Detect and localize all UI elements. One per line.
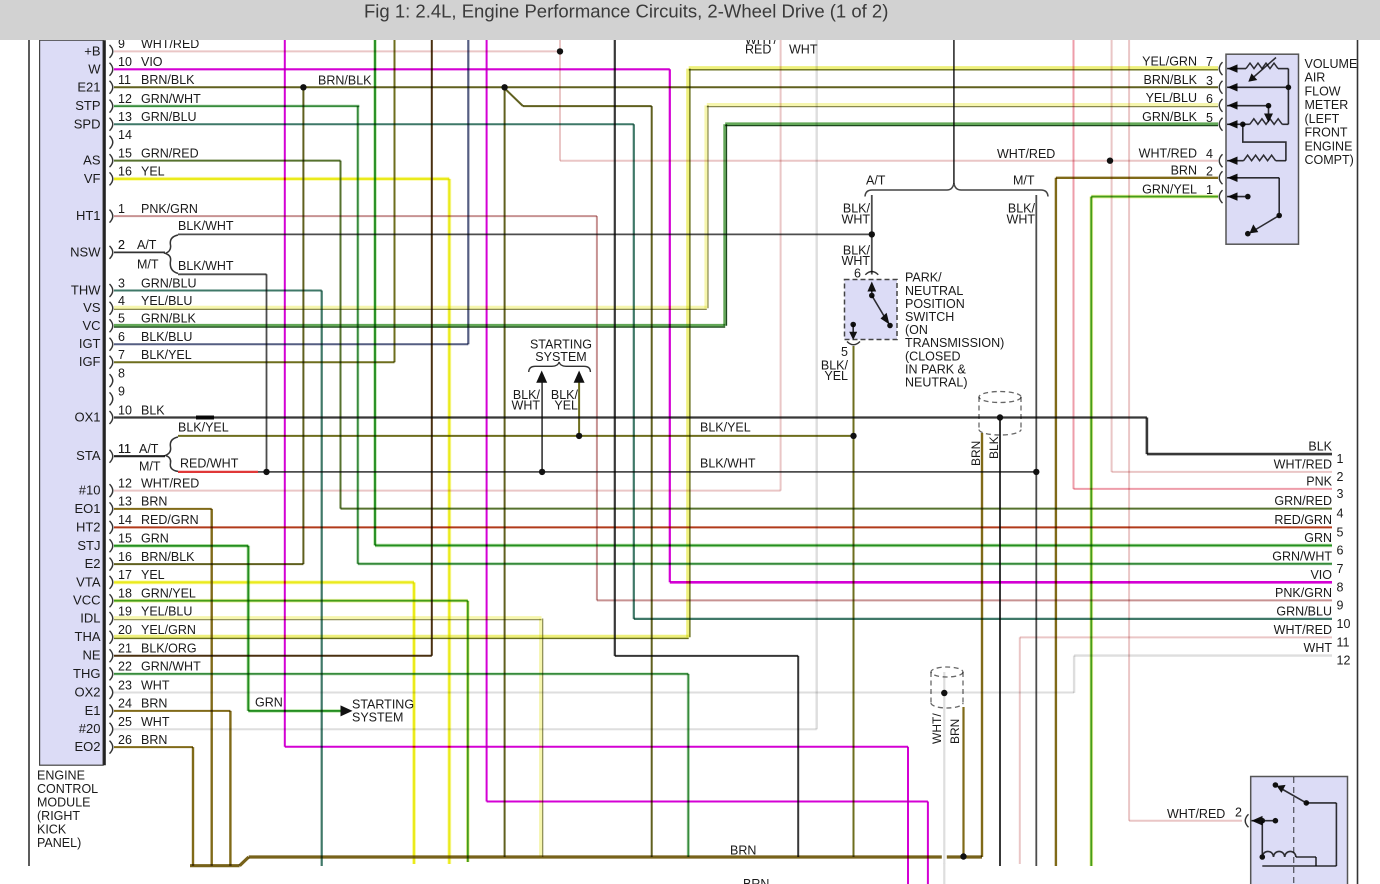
svg-text:BLK/BLU: BLK/BLU	[141, 330, 192, 344]
svg-text:18: 18	[118, 587, 132, 601]
svg-text:WHT: WHT	[141, 715, 170, 729]
svg-text:SYSTEM: SYSTEM	[535, 350, 586, 364]
svg-text:21: 21	[118, 642, 132, 656]
svg-text:BRN/BLK: BRN/BLK	[141, 73, 195, 87]
svg-text:1: 1	[118, 202, 125, 216]
svg-text:14: 14	[118, 128, 132, 142]
svg-text:BRN: BRN	[743, 877, 769, 884]
svg-text:VTA: VTA	[76, 574, 101, 589]
svg-text:RED/WHT: RED/WHT	[180, 457, 239, 471]
svg-text:8: 8	[118, 366, 125, 380]
svg-text:BRN: BRN	[948, 719, 962, 744]
svg-text:BRN: BRN	[141, 697, 167, 711]
svg-text:BLK/ORG: BLK/ORG	[141, 642, 197, 656]
svg-text:23: 23	[118, 678, 132, 692]
svg-text:BRN: BRN	[141, 733, 167, 747]
svg-text:10: 10	[118, 55, 132, 69]
svg-text:WHT/RED: WHT/RED	[1274, 623, 1332, 637]
svg-text:SPD: SPD	[74, 116, 101, 131]
svg-text:NEUTRAL): NEUTRAL)	[905, 376, 968, 390]
svg-text:(RIGHT: (RIGHT	[37, 809, 80, 823]
svg-text:BLK/WHT: BLK/WHT	[178, 259, 234, 273]
svg-text:3: 3	[118, 276, 125, 290]
svg-text:HT1: HT1	[76, 208, 101, 223]
svg-text:BLK: BLK	[987, 436, 1001, 459]
svg-text:GRN/BLU: GRN/BLU	[141, 110, 197, 124]
svg-text:16: 16	[118, 550, 132, 564]
svg-text:STJ: STJ	[77, 538, 100, 553]
svg-text:BLK/YEL: BLK/YEL	[178, 421, 229, 435]
svg-text:BLK/WHT: BLK/WHT	[178, 219, 234, 233]
svg-text:WHT/RED: WHT/RED	[1139, 147, 1197, 161]
svg-text:VCC: VCC	[73, 593, 100, 608]
svg-text:WHT: WHT	[512, 399, 541, 413]
svg-text:Fig 1: 2.4L, Engine Performanc: Fig 1: 2.4L, Engine Performance Circuits…	[364, 1, 888, 22]
svg-text:IGT: IGT	[79, 336, 101, 351]
svg-text:E1: E1	[85, 703, 101, 718]
svg-text:6: 6	[854, 267, 861, 281]
svg-text:GRN/WHT: GRN/WHT	[141, 660, 201, 674]
svg-text:VS: VS	[83, 300, 101, 315]
svg-text:11: 11	[118, 442, 131, 456]
svg-text:GRN/YEL: GRN/YEL	[141, 587, 196, 601]
svg-text:ENGINE: ENGINE	[1305, 139, 1353, 153]
svg-text:VIO: VIO	[1310, 568, 1332, 582]
svg-text:YEL: YEL	[141, 568, 165, 582]
svg-text:E21: E21	[77, 79, 100, 94]
svg-text:BRN: BRN	[141, 495, 167, 509]
svg-text:RED: RED	[745, 43, 771, 57]
svg-text:YEL: YEL	[554, 399, 578, 413]
svg-text:AIR: AIR	[1305, 71, 1326, 85]
svg-text:2: 2	[1235, 806, 1242, 820]
svg-text:FRONT: FRONT	[1305, 126, 1348, 140]
svg-text:1: 1	[1206, 183, 1213, 197]
svg-text:SYSTEM: SYSTEM	[352, 710, 403, 724]
svg-text:5: 5	[841, 345, 848, 359]
svg-text:10: 10	[1337, 617, 1351, 631]
svg-text:BRN/BLK: BRN/BLK	[141, 550, 195, 564]
svg-text:12: 12	[118, 92, 132, 106]
svg-text:11: 11	[118, 73, 131, 87]
svg-text:PNK: PNK	[1306, 474, 1332, 488]
svg-text:THG: THG	[73, 666, 100, 681]
svg-text:#10: #10	[79, 483, 101, 498]
svg-text:6: 6	[1206, 92, 1213, 106]
svg-text:6: 6	[1337, 543, 1344, 557]
svg-text:+B: +B	[84, 43, 100, 58]
svg-text:WHT: WHT	[789, 43, 818, 57]
svg-text:24: 24	[118, 697, 132, 711]
svg-text:A/T: A/T	[139, 442, 159, 456]
svg-text:3: 3	[1337, 487, 1344, 501]
svg-text:STA: STA	[76, 448, 101, 463]
svg-text:STP: STP	[75, 98, 100, 113]
svg-text:7: 7	[1337, 562, 1344, 576]
svg-text:BLK: BLK	[1308, 440, 1332, 454]
svg-text:YEL: YEL	[141, 165, 165, 179]
svg-text:WHT/RED: WHT/RED	[1167, 807, 1225, 821]
svg-text:GRN/BLU: GRN/BLU	[1276, 604, 1332, 618]
svg-text:AS: AS	[83, 153, 101, 168]
svg-text:GRN/WHT: GRN/WHT	[1272, 549, 1332, 563]
svg-text:6: 6	[118, 330, 125, 344]
svg-text:BLK/YEL: BLK/YEL	[141, 348, 192, 362]
svg-text:EO2: EO2	[74, 739, 100, 754]
svg-text:M/T: M/T	[1013, 173, 1035, 187]
svg-text:WHT: WHT	[1304, 641, 1333, 655]
svg-text:15: 15	[118, 146, 132, 160]
svg-text:GRN: GRN	[141, 532, 169, 546]
svg-text:EO1: EO1	[74, 501, 100, 516]
svg-text:THW: THW	[71, 283, 101, 298]
svg-text:BRN/BLK: BRN/BLK	[318, 74, 372, 88]
svg-text:WHT: WHT	[141, 678, 170, 692]
svg-text:M/T: M/T	[137, 258, 159, 272]
svg-text:PARK/: PARK/	[905, 271, 942, 285]
svg-text:1: 1	[1337, 452, 1344, 466]
svg-text:YEL/GRN: YEL/GRN	[1142, 54, 1197, 68]
svg-text:16: 16	[118, 165, 132, 179]
svg-text:2: 2	[118, 238, 125, 252]
svg-text:STARTING: STARTING	[352, 697, 414, 711]
svg-text:YEL: YEL	[824, 369, 848, 383]
svg-text:VIO: VIO	[141, 55, 163, 69]
svg-text:A/T: A/T	[137, 238, 157, 252]
svg-text:RED/GRN: RED/GRN	[1274, 513, 1332, 527]
svg-text:MODULE: MODULE	[37, 796, 90, 810]
svg-text:BLK: BLK	[141, 403, 165, 417]
svg-text:IN PARK &: IN PARK &	[905, 363, 967, 377]
svg-text:3: 3	[1206, 74, 1213, 88]
svg-text:OX1: OX1	[74, 410, 100, 425]
svg-text:17: 17	[118, 568, 132, 582]
svg-text:WHT/RED: WHT/RED	[141, 476, 199, 490]
svg-text:14: 14	[118, 513, 132, 527]
svg-text:GRN/BLK: GRN/BLK	[1142, 110, 1198, 124]
svg-text:13: 13	[118, 495, 132, 509]
svg-text:WHT/RED: WHT/RED	[1274, 457, 1332, 471]
svg-text:13: 13	[118, 110, 132, 124]
svg-text:GRN/BLK: GRN/BLK	[141, 312, 197, 326]
svg-text:8: 8	[1337, 580, 1344, 594]
svg-text:WHT: WHT	[842, 213, 871, 227]
svg-text:5: 5	[1206, 111, 1213, 125]
svg-text:WHT/: WHT/	[930, 713, 944, 744]
svg-text:2: 2	[1337, 470, 1344, 484]
svg-text:YEL/BLU: YEL/BLU	[1146, 91, 1197, 105]
svg-text:(ON: (ON	[905, 323, 928, 337]
svg-text:HT2: HT2	[76, 519, 101, 534]
svg-text:IGF: IGF	[79, 354, 101, 369]
svg-text:NEUTRAL: NEUTRAL	[905, 284, 963, 298]
svg-text:GRN/RED: GRN/RED	[141, 146, 199, 160]
svg-text:5: 5	[118, 312, 125, 326]
svg-text:E2: E2	[85, 556, 101, 571]
svg-text:10: 10	[118, 403, 132, 417]
svg-text:GRN: GRN	[255, 696, 283, 710]
svg-text:BLK/YEL: BLK/YEL	[700, 421, 751, 435]
svg-text:WHT/RED: WHT/RED	[997, 147, 1055, 161]
svg-text:PANEL): PANEL)	[37, 836, 81, 850]
svg-text:NSW: NSW	[70, 244, 101, 259]
svg-text:METER: METER	[1305, 98, 1349, 112]
svg-text:11: 11	[1337, 635, 1350, 649]
svg-text:FLOW: FLOW	[1305, 84, 1341, 98]
svg-text:12: 12	[1337, 654, 1351, 668]
svg-text:OX2: OX2	[74, 685, 100, 700]
svg-text:BRN/BLK: BRN/BLK	[1144, 73, 1198, 87]
svg-text:GRN/YEL: GRN/YEL	[1142, 182, 1197, 196]
svg-text:12: 12	[118, 476, 132, 490]
svg-text:GRN/RED: GRN/RED	[1274, 494, 1332, 508]
svg-text:(CLOSED: (CLOSED	[905, 350, 961, 364]
svg-text:ENGINE: ENGINE	[37, 769, 85, 783]
svg-text:M/T: M/T	[139, 460, 161, 474]
svg-text:25: 25	[118, 715, 132, 729]
svg-text:7: 7	[1206, 55, 1213, 69]
svg-text:RED/GRN: RED/GRN	[141, 513, 199, 527]
svg-text:4: 4	[1337, 507, 1344, 521]
svg-text:22: 22	[118, 660, 132, 674]
svg-text:WHT: WHT	[1007, 213, 1036, 227]
svg-text:9: 9	[1337, 598, 1344, 612]
svg-text:VF: VF	[84, 171, 101, 186]
svg-text:4: 4	[1206, 147, 1213, 161]
svg-text:VOLUME: VOLUME	[1305, 57, 1358, 71]
svg-text:GRN/WHT: GRN/WHT	[141, 92, 201, 106]
svg-text:W: W	[88, 61, 101, 76]
svg-text:POSITION: POSITION	[905, 297, 965, 311]
svg-text:5: 5	[1337, 525, 1344, 539]
svg-text:BLK/WHT: BLK/WHT	[700, 457, 756, 471]
svg-text:PNK/GRN: PNK/GRN	[1275, 586, 1332, 600]
svg-text:SWITCH: SWITCH	[905, 310, 954, 324]
svg-text:#20: #20	[79, 721, 101, 736]
svg-text:KICK: KICK	[37, 823, 67, 837]
svg-text:IDL: IDL	[80, 611, 100, 626]
svg-text:26: 26	[118, 733, 132, 747]
svg-text:BRN: BRN	[730, 843, 756, 857]
svg-text:BRN: BRN	[969, 441, 983, 466]
svg-text:CONTROL: CONTROL	[37, 782, 98, 796]
svg-text:THA: THA	[75, 629, 101, 644]
svg-text:VC: VC	[82, 318, 100, 333]
svg-text:7: 7	[118, 348, 125, 362]
svg-text:PNK/GRN: PNK/GRN	[141, 202, 198, 216]
svg-text:A/T: A/T	[866, 173, 886, 187]
svg-text:15: 15	[118, 532, 132, 546]
svg-text:BRN: BRN	[1171, 164, 1197, 178]
svg-text:GRN/BLU: GRN/BLU	[141, 276, 197, 290]
svg-text:2: 2	[1206, 164, 1213, 178]
svg-text:NE: NE	[82, 648, 100, 663]
svg-text:(LEFT: (LEFT	[1305, 112, 1340, 126]
svg-text:GRN: GRN	[1304, 531, 1332, 545]
svg-text:COMPT): COMPT)	[1305, 153, 1354, 167]
svg-text:TRANSMISSION): TRANSMISSION)	[905, 336, 1004, 350]
svg-text:9: 9	[118, 385, 125, 399]
